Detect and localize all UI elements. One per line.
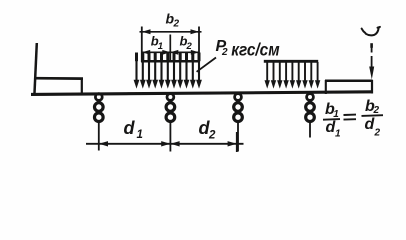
svg-text:2: 2: [373, 105, 380, 116]
distributed load q2 arrows: [265, 62, 321, 89]
distributed load q1 arrows: [134, 53, 202, 89]
beam: [31, 90, 373, 96]
dimension b2 overall line: [140, 29, 202, 34]
label b1: [151, 34, 163, 53]
dimension d1 d2 line: [86, 132, 244, 152]
left step block: [34, 78, 83, 95]
distributed load q2 top line: [264, 60, 318, 63]
svg-text:кгс/см: кгс/см: [231, 41, 279, 60]
roller support 2: [166, 94, 175, 152]
label d1: [124, 118, 143, 141]
right step block: [325, 80, 373, 94]
dimension b1 b2 line: [142, 35, 199, 63]
label P2 kgs/cm: [216, 38, 280, 60]
leader line to P2: [197, 58, 216, 72]
label b2 top: [166, 11, 180, 30]
force arrow at right end: [369, 43, 374, 79]
label b2 inner: [180, 34, 193, 53]
svg-text:1: 1: [335, 128, 341, 139]
left end post: [34, 43, 36, 95]
svg-text:1: 1: [158, 41, 163, 52]
hook symbol top right: [362, 27, 380, 36]
svg-text:2: 2: [173, 19, 180, 30]
roller support 1: [95, 94, 104, 151]
label d2: [199, 118, 217, 142]
svg-text:d: d: [124, 118, 136, 138]
roller support 4: [306, 94, 315, 138]
roller support 3: [234, 94, 243, 152]
svg-text:2: 2: [208, 130, 216, 142]
formula b1/d1 = b2/d2: [323, 98, 383, 139]
svg-text:2: 2: [186, 41, 193, 52]
svg-text:2: 2: [221, 47, 228, 58]
distributed load q1 box: [141, 27, 200, 63]
svg-text:2: 2: [374, 128, 381, 139]
svg-text:1: 1: [137, 129, 143, 141]
